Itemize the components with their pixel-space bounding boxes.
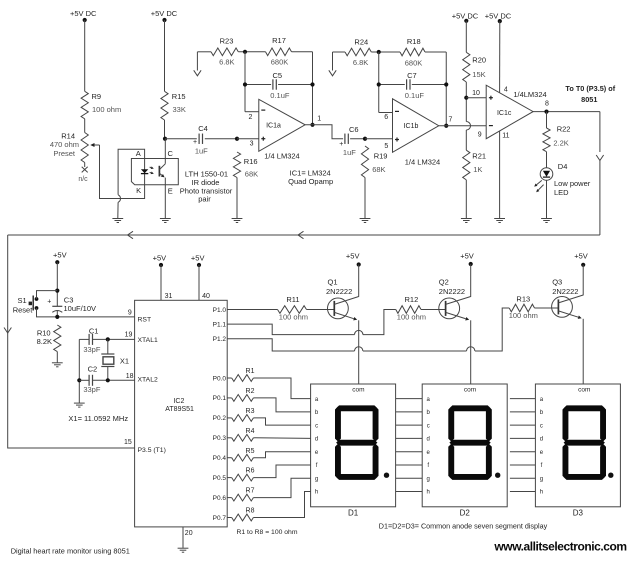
svg-text:P0.6: P0.6 xyxy=(213,495,227,502)
svg-text:R21: R21 xyxy=(472,152,486,161)
svg-text:100 ohm: 100 ohm xyxy=(397,313,426,322)
svg-text:15K: 15K xyxy=(472,70,485,79)
svg-text:R18: R18 xyxy=(407,37,421,46)
svg-text:+: + xyxy=(47,299,51,306)
svg-text:d: d xyxy=(540,437,543,443)
svg-text:c: c xyxy=(427,423,430,429)
svg-text:c: c xyxy=(540,423,543,429)
svg-text:f: f xyxy=(316,463,318,469)
svg-text:Reset: Reset xyxy=(13,305,34,314)
svg-text:g: g xyxy=(315,476,318,482)
svg-text:2N2222: 2N2222 xyxy=(326,287,352,296)
svg-text:8051: 8051 xyxy=(581,95,597,104)
svg-text:P1.2: P1.2 xyxy=(213,336,227,343)
svg-text:+: + xyxy=(339,141,343,148)
svg-text:33pF: 33pF xyxy=(83,345,101,354)
svg-text:D1: D1 xyxy=(348,509,359,518)
svg-text:15: 15 xyxy=(124,439,132,446)
svg-text:+5V: +5V xyxy=(53,251,67,260)
svg-text:C7: C7 xyxy=(407,71,417,80)
svg-text:3: 3 xyxy=(250,141,254,148)
svg-text:R14: R14 xyxy=(61,131,75,140)
svg-text:P3.5 (T1): P3.5 (T1) xyxy=(138,447,166,454)
svg-text:h: h xyxy=(427,490,430,496)
svg-text:8.2K: 8.2K xyxy=(37,337,52,346)
svg-text:c: c xyxy=(315,423,318,429)
svg-text:com: com xyxy=(352,387,364,394)
svg-text:6: 6 xyxy=(384,114,388,121)
svg-text:P0.4: P0.4 xyxy=(213,455,227,462)
svg-text:a: a xyxy=(540,397,544,403)
svg-text:P0.1: P0.1 xyxy=(213,395,227,402)
svg-text:XTAL1: XTAL1 xyxy=(138,337,158,344)
svg-text:IC1b: IC1b xyxy=(404,123,419,130)
svg-text:2.2K: 2.2K xyxy=(553,138,568,147)
svg-text:+5V: +5V xyxy=(460,251,474,260)
svg-text:100 ohm: 100 ohm xyxy=(509,311,538,320)
svg-text:R9: R9 xyxy=(92,92,102,101)
svg-text:g: g xyxy=(427,476,430,482)
svg-text:9: 9 xyxy=(128,310,132,317)
svg-text:1/4 LM324: 1/4 LM324 xyxy=(405,157,440,166)
svg-text:P1.0: P1.0 xyxy=(213,307,227,314)
svg-text:R8: R8 xyxy=(246,508,255,515)
svg-text:Preset: Preset xyxy=(53,149,76,158)
svg-text:d: d xyxy=(427,437,430,443)
svg-text:33pF: 33pF xyxy=(83,385,101,394)
svg-text:f: f xyxy=(427,463,429,469)
svg-text:R23: R23 xyxy=(220,37,234,46)
svg-text:e: e xyxy=(540,450,544,456)
svg-text:31: 31 xyxy=(165,293,173,300)
svg-text:com: com xyxy=(464,387,476,394)
svg-text:RST: RST xyxy=(138,316,152,323)
svg-text:2: 2 xyxy=(248,114,252,121)
svg-text:9: 9 xyxy=(478,132,482,139)
svg-text:Digital heart rate monitor usi: Digital heart rate monitor using 8051 xyxy=(11,547,130,556)
svg-text:h: h xyxy=(315,490,318,496)
svg-text:68K: 68K xyxy=(372,165,385,174)
svg-text:R2: R2 xyxy=(246,388,255,395)
svg-text:a: a xyxy=(427,397,431,403)
svg-text:IC2: IC2 xyxy=(173,398,184,405)
svg-text:R19: R19 xyxy=(374,151,388,160)
svg-text:D4: D4 xyxy=(558,162,568,171)
svg-text:7: 7 xyxy=(449,116,453,123)
svg-text:R12: R12 xyxy=(405,295,419,304)
svg-text:1K: 1K xyxy=(473,165,482,174)
svg-text:1/4 LM324: 1/4 LM324 xyxy=(264,152,299,161)
svg-text:R20: R20 xyxy=(472,56,486,65)
svg-text:a: a xyxy=(315,397,319,403)
svg-text:40: 40 xyxy=(202,293,210,300)
svg-text:b: b xyxy=(315,410,319,416)
svg-text:+5V: +5V xyxy=(346,251,360,260)
svg-text:R3: R3 xyxy=(246,408,255,415)
svg-text:D2: D2 xyxy=(460,509,471,518)
svg-text:Q1: Q1 xyxy=(328,277,338,286)
svg-text:10: 10 xyxy=(472,90,480,97)
svg-text:R7: R7 xyxy=(246,488,255,495)
svg-text:X1= 11.0592 MHz: X1= 11.0592 MHz xyxy=(68,414,128,423)
svg-text:R1 to R8 = 100 ohm: R1 to R8 = 100 ohm xyxy=(236,529,297,536)
svg-text:+5V DC: +5V DC xyxy=(70,9,97,18)
svg-text:h: h xyxy=(540,490,543,496)
svg-text:19: 19 xyxy=(125,331,133,338)
svg-text:680K: 680K xyxy=(271,58,289,67)
svg-text:20: 20 xyxy=(185,530,193,537)
svg-text:g: g xyxy=(540,476,543,482)
svg-text:LED: LED xyxy=(554,188,569,197)
svg-text:P1.1: P1.1 xyxy=(213,321,227,328)
svg-text:P0.3: P0.3 xyxy=(213,435,227,442)
svg-text:5: 5 xyxy=(384,143,388,150)
svg-text:P0.5: P0.5 xyxy=(213,475,227,482)
svg-text:+5V: +5V xyxy=(574,251,588,260)
svg-text:e: e xyxy=(315,450,319,456)
svg-text:68K: 68K xyxy=(245,170,258,179)
svg-text:100 ohm: 100 ohm xyxy=(279,312,308,321)
svg-text:P0.2: P0.2 xyxy=(213,415,227,422)
svg-text:18: 18 xyxy=(126,373,134,380)
svg-text:D1=D2=D3= Common anode seven s: D1=D2=D3= Common anode seven segment dis… xyxy=(379,521,548,530)
svg-text:pair: pair xyxy=(198,194,211,203)
svg-text:S1: S1 xyxy=(18,296,27,305)
svg-text:0.1uF: 0.1uF xyxy=(270,91,290,100)
svg-text:1uF: 1uF xyxy=(343,148,356,157)
svg-text:Q3: Q3 xyxy=(552,277,562,286)
svg-text:R4: R4 xyxy=(246,428,255,435)
svg-text:6.8K: 6.8K xyxy=(353,58,368,67)
svg-text:XTAL2: XTAL2 xyxy=(138,376,158,383)
svg-text:R13: R13 xyxy=(516,295,530,304)
svg-text:R17: R17 xyxy=(272,36,286,45)
svg-text:+5V: +5V xyxy=(191,254,205,263)
svg-text:6.8K: 6.8K xyxy=(219,58,234,67)
svg-text:8: 8 xyxy=(545,101,549,108)
svg-text:C1: C1 xyxy=(89,326,99,335)
svg-text:2N2222: 2N2222 xyxy=(439,287,465,296)
svg-text:IC1c: IC1c xyxy=(497,110,512,117)
svg-text:2N2222: 2N2222 xyxy=(552,287,578,296)
svg-text:Q2: Q2 xyxy=(439,277,449,286)
svg-text:R24: R24 xyxy=(354,38,368,47)
svg-text:f: f xyxy=(541,463,543,469)
svg-text:100 ohm: 100 ohm xyxy=(92,105,121,114)
svg-text:R5: R5 xyxy=(246,448,255,455)
svg-text:+5V DC: +5V DC xyxy=(151,9,178,18)
svg-text:D3: D3 xyxy=(573,509,584,518)
svg-text:0.1uF: 0.1uF xyxy=(405,91,425,100)
svg-text:C5: C5 xyxy=(273,71,283,80)
svg-text:To T0 (P3.5) of: To T0 (P3.5) of xyxy=(565,84,615,93)
svg-text:www.allitselectronic.com: www.allitselectronic.com xyxy=(493,540,626,554)
svg-text:Quad Opamp: Quad Opamp xyxy=(288,177,333,186)
svg-text:C2: C2 xyxy=(88,365,98,374)
svg-text:+5V DC: +5V DC xyxy=(485,11,512,20)
svg-text:1uF: 1uF xyxy=(195,146,208,155)
svg-text:4: 4 xyxy=(504,87,508,94)
svg-text:C: C xyxy=(167,149,173,158)
svg-text:10uF/10V: 10uF/10V xyxy=(64,304,97,313)
svg-text:b: b xyxy=(427,410,431,416)
svg-text:e: e xyxy=(427,450,431,456)
svg-text:R6: R6 xyxy=(246,468,255,475)
svg-text:com: com xyxy=(578,387,590,394)
svg-text:d: d xyxy=(315,437,318,443)
svg-text:+: + xyxy=(193,139,197,146)
svg-text:R22: R22 xyxy=(557,125,571,134)
svg-text:1: 1 xyxy=(317,115,321,122)
svg-text:K: K xyxy=(136,186,141,195)
svg-text:b: b xyxy=(540,410,544,416)
svg-text:AT89S51: AT89S51 xyxy=(165,406,194,413)
svg-text:P0.7: P0.7 xyxy=(213,515,227,522)
svg-text:C6: C6 xyxy=(349,125,359,134)
svg-text:+5V: +5V xyxy=(153,254,167,263)
svg-text:+5V DC: +5V DC xyxy=(452,11,479,20)
svg-text:n/c: n/c xyxy=(78,176,88,183)
svg-text:C4: C4 xyxy=(198,124,208,133)
svg-text:33K: 33K xyxy=(173,105,186,114)
svg-text:R11: R11 xyxy=(286,295,299,304)
svg-text:A: A xyxy=(136,149,141,158)
svg-text:680K: 680K xyxy=(405,58,423,67)
svg-text:R16: R16 xyxy=(244,157,258,166)
svg-text:R15: R15 xyxy=(172,92,186,101)
svg-text:X1: X1 xyxy=(120,357,129,366)
svg-text:R1: R1 xyxy=(246,368,255,375)
svg-text:1/4LM324: 1/4LM324 xyxy=(513,90,546,99)
svg-text:IC1a: IC1a xyxy=(266,122,281,129)
svg-text:470 ohm: 470 ohm xyxy=(50,140,79,149)
svg-text:11: 11 xyxy=(502,132,509,139)
svg-text:E: E xyxy=(168,187,173,196)
svg-text:P0.0: P0.0 xyxy=(213,375,227,382)
